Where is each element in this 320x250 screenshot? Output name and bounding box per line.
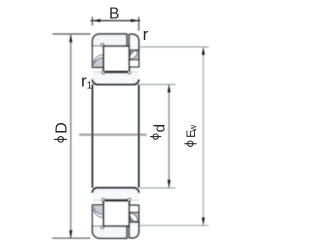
- label phi Ew symbol: [184, 141, 196, 146]
- svg-text:D: D: [54, 122, 71, 134]
- inner ring bore edge with chamfers: [92, 79, 138, 84]
- cage rivet top left: [101, 44, 104, 47]
- inner ring shoulder edge: [93, 71, 138, 73]
- bore line left: [91, 84, 93, 187]
- arrowhead phi Ew top: [202, 47, 205, 55]
- outer ring body: [92, 34, 126, 46]
- loose rib lower face: [130, 61, 138, 67]
- arrowhead phi d bottom: [167, 180, 170, 188]
- label phi D symbol: [54, 137, 67, 143]
- inner ring raceway line: [105, 72, 129, 74]
- extension line B left: [91, 17, 93, 26]
- svg-text:w: w: [188, 125, 199, 133]
- dimension line B: [90, 20, 140, 22]
- cage shading in rib: [93, 58, 103, 67]
- bore line right: [138, 84, 140, 187]
- svg-text:B: B: [109, 5, 119, 22]
- cage rivet bottom right: [128, 71, 131, 74]
- dimension line phi d: [168, 85, 170, 188]
- arrowhead phi Ew bottom: [202, 217, 205, 225]
- cage arc inner: [94, 58, 104, 65]
- bearing axis centerline: [79, 133, 146, 135]
- loose rib zone bottom line: [129, 59, 139, 61]
- loose rib shaded zone: [130, 51, 138, 60]
- svg-text:d: d: [151, 124, 168, 132]
- label phi d symbol: [150, 134, 161, 139]
- extension line phi d top: [140, 83, 176, 85]
- dimension line phi D: [70, 34, 72, 238]
- arrowhead phi d top: [167, 85, 170, 93]
- dimension line phi Ew: [202, 47, 204, 225]
- arrowhead B right: [131, 19, 139, 22]
- arrowhead B left: [92, 19, 100, 22]
- bearing upper cross-section (mirrored below for lower half): [92, 34, 138, 84]
- loose rib seat line: [129, 49, 139, 51]
- inner ring body: [92, 72, 138, 84]
- roller: [104, 46, 130, 71]
- svg-text:r: r: [143, 25, 149, 44]
- outer ring rib: [92, 46, 103, 67]
- extension line phi Ew top: [140, 46, 209, 48]
- extension line phi Ew bottom: [140, 225, 209, 227]
- loose rib chamfer leaf: [130, 51, 137, 59]
- arrowhead phi D bottom: [69, 230, 72, 238]
- loose rib piece: [129, 34, 139, 67]
- bearing lower cross-section (mirror): [92, 188, 138, 238]
- arrowhead phi D top: [69, 34, 72, 42]
- extension line phi D bottom: [52, 237, 90, 239]
- cage rivet bottom left: [102, 71, 105, 74]
- extension line phi D top: [53, 33, 91, 35]
- extension line phi d bottom: [140, 187, 176, 189]
- cage arc outer: [94, 55, 104, 63]
- extension line B right: [138, 17, 140, 31]
